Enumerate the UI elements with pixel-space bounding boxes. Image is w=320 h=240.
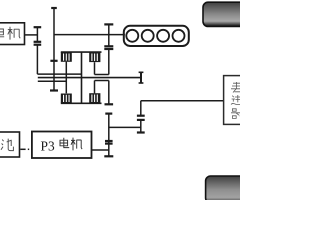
clutch column x108.8 lower: drop to cap, then P3 clutch chain: [104, 81, 113, 157]
dash-dot link battery to P3: [20, 148, 29, 150]
gear G1 (comb, hangs from top rail): [61, 52, 72, 62]
engine (4 cylinders): [124, 26, 189, 46]
top rail of gear set: [61, 51, 102, 53]
clutch K0 column x=37.4: [34, 27, 42, 74]
motor box (电机) top-left, cut at left edge: [0, 23, 25, 45]
gear G3 (comb, stands on bottom rail): [61, 94, 72, 104]
differential box (差速器), cut at right edge: [224, 76, 249, 125]
wire: motor to clutch K0: [25, 34, 38, 36]
差 fragment: [231, 82, 240, 93]
gear G2 (comb, hangs from top rail): [89, 52, 100, 62]
tap G1-G3 vertical x66.3: [65, 62, 67, 94]
池 label: [1, 139, 13, 151]
link bar y127.4 between columns: [109, 126, 141, 128]
速 fragment: [231, 95, 240, 104]
wire: engine to clutch column: [54, 34, 125, 36]
main rail y77.6 with end stop: [38, 72, 144, 83]
battery box (电池), cut at left edge: [0, 132, 20, 157]
tap G4 lower: [94, 81, 96, 94]
P3 motor box: [32, 132, 92, 159]
right clutch column x140.8: [137, 101, 145, 133]
U-bar joining G2 tap and K1/K2 column: [95, 74, 109, 76]
tap G2 upper: [94, 62, 96, 74]
clutch column x108.8: top cap, engine tee, plates K1: [104, 24, 113, 74]
bottom-right button: [206, 176, 249, 203]
shaft x54: top cap, plate, to main rail, lower stub w/ cap: [50, 8, 58, 91]
output wire to differential box: [141, 100, 224, 102]
器 fragment: [231, 109, 240, 119]
motor label 电机: [0, 27, 20, 40]
svg-text:P3: P3: [41, 139, 55, 154]
left lower bar y81.2: [38, 80, 67, 82]
Pi-bar joining G4 tap and lower clutch drop: [95, 80, 109, 82]
wire: P3 box to clutch column: [92, 149, 109, 151]
top-right button: [203, 2, 249, 26]
aux rail from K0 to long vertical: [37, 73, 81, 75]
long vertical x81.5: [81, 52, 83, 103]
bottom rail of gear set: [61, 102, 102, 104]
gear G4 (comb, stands on bottom rail): [89, 93, 100, 103]
